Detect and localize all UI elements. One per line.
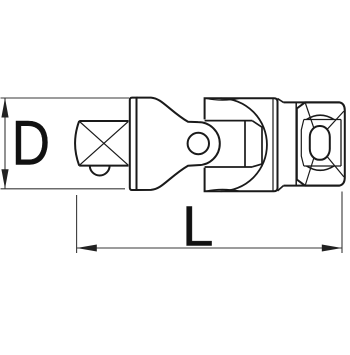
arrowhead L left: [77, 245, 97, 252]
face inner frame left slant: [301, 120, 304, 167]
square drive body: [75, 121, 128, 166]
socket face outline: [297, 102, 345, 185]
right yoke cup outline: [205, 98, 278, 191]
svg-text:L: L: [182, 195, 213, 258]
face inner frame right line: [340, 120, 342, 167]
square drive cross diagonal 2: [80, 122, 129, 166]
socket top edge: [284, 101, 340, 103]
arrowhead D bottom: [1, 169, 8, 189]
detent ball: [90, 166, 110, 176]
left yoke body outline: [137, 98, 220, 190]
cup saddle arc bottom: [206, 189, 240, 191]
face chamfer arc bottom: [307, 166, 335, 170]
square drive cross diagonal 1: [80, 122, 129, 166]
dimension line L horizontal: [77, 247, 342, 249]
cup slot lower line: [205, 166, 253, 168]
arrowhead L right: [322, 245, 342, 252]
pin hole: [188, 133, 209, 154]
cup slot end vertical: [244, 121, 246, 167]
socket neck top chamfer: [278, 99, 284, 103]
socket neck bottom chamfer: [278, 186, 284, 191]
dimension line D vertical: [4, 98, 6, 189]
dimension extension line bottom (D): [1, 188, 126, 190]
socket silhouette vertical: [295, 102, 297, 185]
cup slot upper line: [205, 120, 253, 122]
dimension extension line left (L): [76, 195, 78, 253]
square hole stadium: [310, 126, 330, 160]
svg-text:D: D: [12, 108, 50, 178]
face chamfer arc top: [307, 115, 335, 119]
face diagonal top-right: [328, 111, 345, 129]
face diagonal top-left: [306, 104, 315, 129]
cup saddle arc top: [206, 98, 240, 100]
cup inner ring line: [272, 99, 274, 191]
face diagonal bottom-right: [328, 157, 345, 177]
face inner frame bottom line: [304, 165, 341, 167]
dimension extension line right (L): [341, 192, 343, 254]
face diagonal bottom-left: [306, 158, 315, 185]
face inner frame top line: [304, 119, 341, 121]
right yoke cup mouth arc: [221, 98, 267, 191]
dimension extension line top (D): [1, 97, 130, 99]
arrowhead D top: [1, 98, 8, 118]
cup inner block chamfered: [252, 121, 262, 167]
socket bottom edge: [284, 185, 340, 187]
left yoke flange band: [130, 98, 137, 190]
